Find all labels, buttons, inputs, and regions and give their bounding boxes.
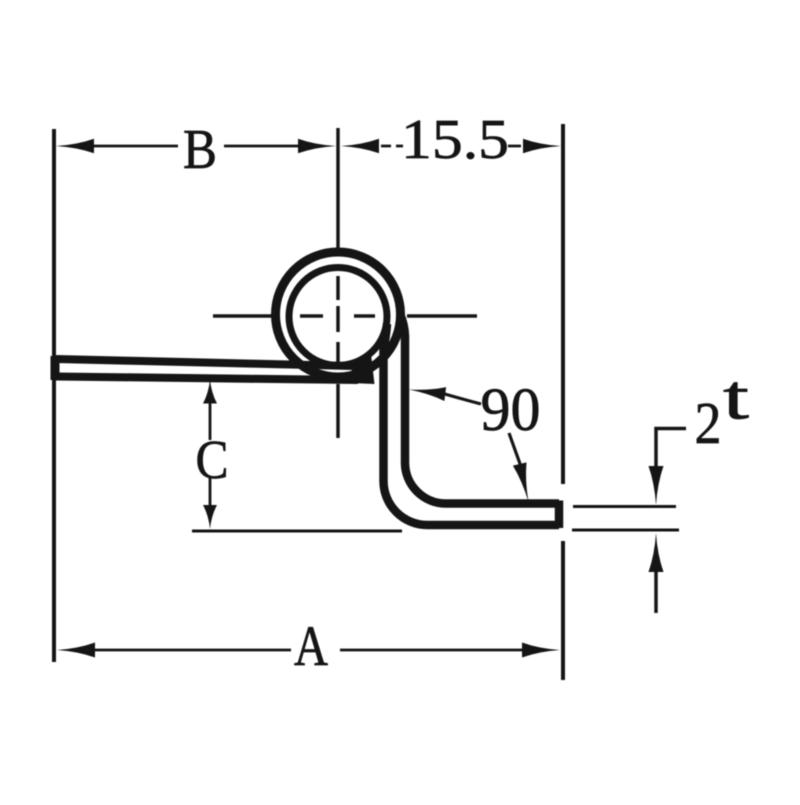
svg-text:B: B [183,119,217,181]
dimension 2t bottom arrowhead [649,533,664,572]
dimension 15.5 left arrowhead [341,139,379,154]
leader arrow from 90 to leg [436,392,481,405]
dimension A right arrowhead [522,643,560,658]
extension lines for 2t [572,507,679,531]
wire leg inner (left) edge and outer bend to bottom segment bottom edge [384,324,560,525]
svg-text:15.5: 15.5 [401,109,509,171]
svg-text:C: C [196,429,229,490]
dimension A left arrowhead [57,643,95,658]
svg-text:2: 2 [695,390,722,456]
wire bottom segment end cap [555,501,564,529]
dimension C top arrowhead [203,380,217,404]
dimension B line [92,145,300,148]
wire end stub at coil bottom [351,354,375,384]
dimension C bottom arrowhead [203,505,217,529]
dimension B left arrowhead [56,139,94,154]
leader arrow from 90 to bottom segment [509,433,523,472]
dimension 2t top arrowhead [649,466,664,505]
svg-text:t: t [723,363,750,433]
wire arm left end cap [51,356,60,380]
wire coil outer circle [276,252,401,377]
dimension A line [94,649,523,652]
dimension 2t bracket [656,429,686,471]
right extension line [561,124,565,680]
dimension C line [209,400,212,507]
wire leg outer (right) edge and inner bend to bottom segment top edge [400,314,559,504]
vertical centerline of coil [336,128,340,438]
dimension 15.5 right arrowhead [523,139,561,154]
left extension line [52,129,56,662]
extension line below C [192,530,402,533]
svg-text:A: A [294,615,328,678]
dimension 15.5 line [381,145,521,148]
wire coil inner circle [289,268,387,366]
horizontal centerline of coil [213,314,477,318]
dimension 2t bottom tail [654,566,658,613]
wire arm top edge [56,359,352,366]
dimension B right arrowhead [298,139,336,154]
wire arm bottom edge [56,377,358,381]
